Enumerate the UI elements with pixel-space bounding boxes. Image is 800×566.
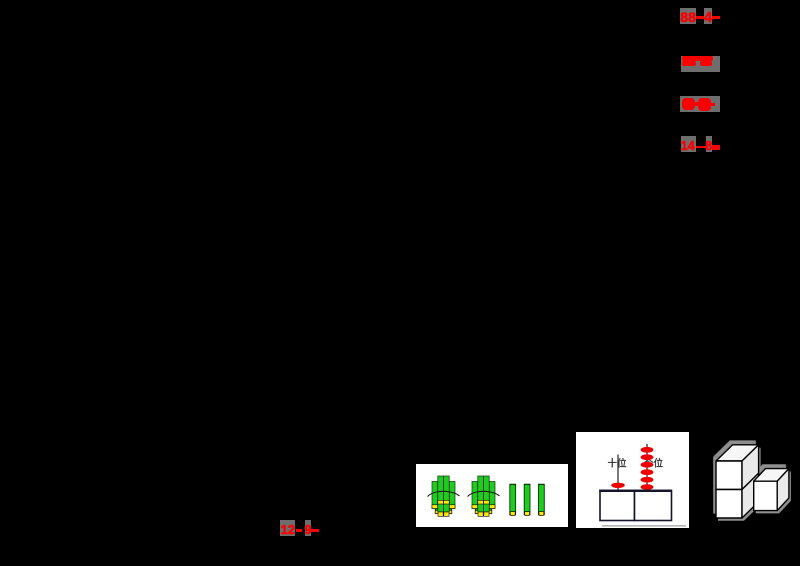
ones bead 6 — [641, 484, 654, 490]
answer 4 digits "14" — [681, 140, 695, 153]
bundle of ten sticks 1 — [427, 476, 459, 516]
tens bead — [611, 482, 625, 487]
bundle of ten sticks 2 — [467, 476, 499, 516]
answer 4 equals dash — [712, 145, 720, 150]
answer 3 red scribble left blob — [682, 98, 695, 110]
ones bead 1 — [641, 446, 654, 452]
ones rod — [646, 444, 648, 491]
bottom answer highlight box a — [280, 520, 295, 536]
answer 1 digit "4" — [704, 10, 712, 25]
answer 1 minus sign — [696, 16, 704, 19]
answer 1 digits "88" — [680, 10, 696, 24]
ones bead 2 — [641, 454, 654, 460]
tens rod — [617, 454, 619, 491]
abacus base top thick edge — [599, 489, 672, 491]
top cube top face — [716, 445, 759, 461]
abacus base right cell — [635, 490, 672, 520]
bottom answer digit "9" — [304, 523, 311, 536]
right cube top face — [754, 469, 789, 482]
base shadow line — [602, 525, 686, 527]
single stick 2 — [524, 484, 530, 516]
answer 1 equals dash — [712, 16, 721, 19]
answer 4 minus sign — [696, 146, 706, 149]
abacus picture white box — [576, 432, 689, 528]
sticks picture white box — [416, 464, 568, 528]
white cubes group — [716, 445, 789, 518]
answer 4 highlight box a — [681, 136, 696, 152]
answer 1 highlight box b — [704, 8, 712, 24]
bottom answer digits "12" — [281, 523, 295, 536]
svg-text:十位: 十位 — [607, 457, 627, 469]
ones bead 3 — [641, 461, 654, 467]
answer 3 red scribble right blob — [698, 98, 712, 111]
bottom answer highlight box b — [305, 520, 312, 536]
answer 3 red scribble right bar — [710, 103, 715, 107]
answer 2 red scribble right lump — [700, 61, 712, 66]
bottom cube right face — [742, 473, 759, 518]
single stick 1 — [509, 484, 515, 516]
bottom answer equals dash — [311, 529, 319, 532]
answer 1 highlight box a — [680, 8, 696, 24]
answer 2 red scribble left lump — [682, 61, 697, 66]
cubes figure — [702, 430, 800, 530]
gray shadow copy lower-right — [718, 448, 791, 521]
bottom answer minus sign — [296, 529, 303, 532]
abacus base left cell — [600, 490, 635, 520]
top cube right face — [742, 445, 759, 490]
right cube right face — [777, 469, 789, 511]
answer 4 digit "8" — [705, 140, 712, 153]
ones bead 4 — [641, 469, 654, 475]
top cube front face — [716, 461, 742, 490]
ones bead 5 — [641, 476, 654, 482]
single stick 3 — [538, 484, 544, 516]
answer 2 highlight box — [681, 56, 720, 72]
answer 3 red scribble mid bar — [693, 102, 699, 106]
bottom cube front face — [716, 490, 742, 519]
gray shadow copy upper-left — [713, 440, 786, 513]
answer 3 highlight box — [680, 96, 720, 112]
answer 2 red scribble top bar — [682, 56, 714, 62]
right cube front face — [754, 481, 778, 510]
answer 4 highlight box b — [706, 136, 712, 152]
